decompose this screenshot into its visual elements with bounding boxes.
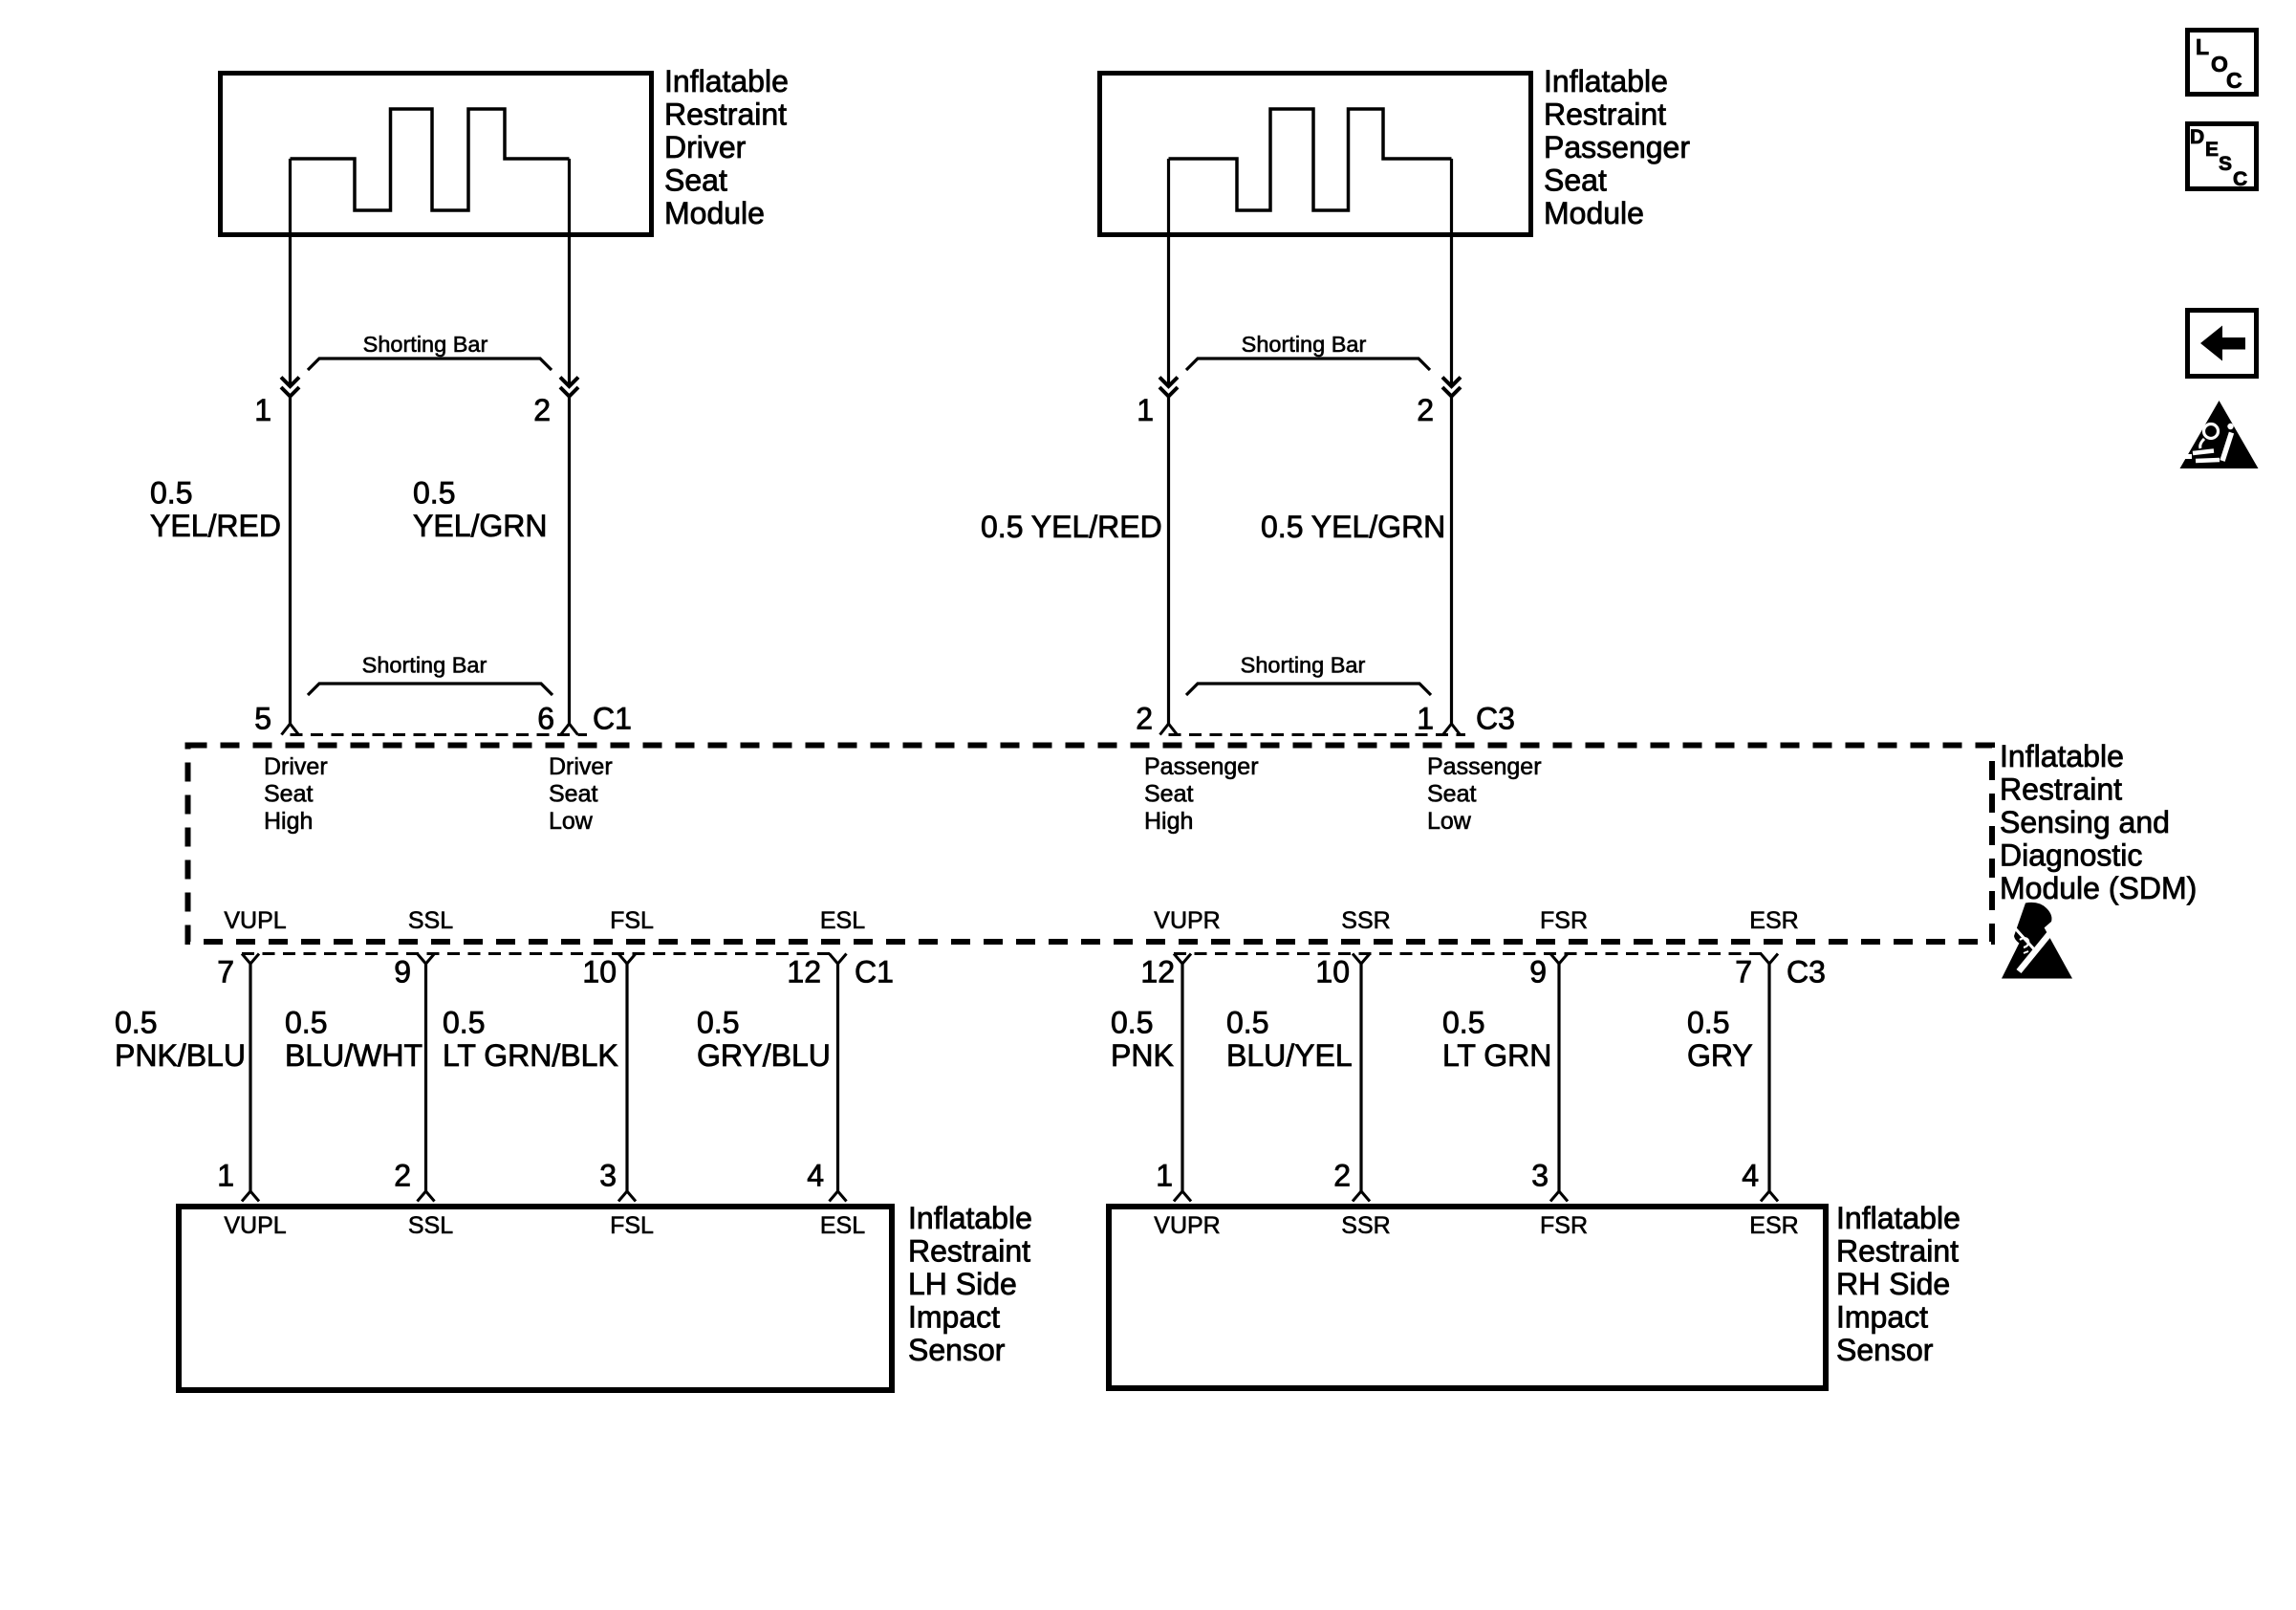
svg-text:Sensor: Sensor xyxy=(1836,1333,1934,1367)
svg-text:Impact: Impact xyxy=(908,1300,1000,1335)
svg-text:SSL: SSL xyxy=(408,907,453,934)
svg-text:Inflatable: Inflatable xyxy=(1836,1201,1960,1235)
svg-text:Passenger: Passenger xyxy=(1544,130,1690,164)
svg-text:0.5: 0.5 xyxy=(1111,1006,1153,1040)
inline connector chevrons at driver pin 1 xyxy=(281,378,299,397)
pin 2 terminal fork at LH sensor (SSL) xyxy=(418,1191,435,1202)
svg-text:FSL: FSL xyxy=(610,1212,654,1239)
connector C3 face line (bottom, dashed) xyxy=(1174,952,1769,955)
svg-text:Seat: Seat xyxy=(1544,163,1607,198)
wire: passenger squib pin 2 lead down to inline connector xyxy=(1450,159,1453,386)
svg-text:0.5: 0.5 xyxy=(1226,1006,1268,1040)
svg-text:YEL/GRN: YEL/GRN xyxy=(413,509,547,543)
svg-text:Diagnostic: Diagnostic xyxy=(2000,838,2142,873)
svg-text:1: 1 xyxy=(217,1159,234,1193)
svg-text:9: 9 xyxy=(394,955,411,990)
icon: LOC legend box xyxy=(2188,31,2257,95)
svg-text:E: E xyxy=(2205,139,2219,161)
svg-text:0.5: 0.5 xyxy=(150,476,192,511)
wire: passenger circuit from connector to SDM pin 1 xyxy=(1450,397,1453,726)
svg-text:ESL: ESL xyxy=(820,1212,865,1239)
pin 10 terminal fork at SDM C3 (SSR) xyxy=(1353,954,1370,965)
pin 1 terminal fork at LH sensor (VUPL) xyxy=(242,1191,259,1202)
svg-text:3: 3 xyxy=(599,1159,617,1193)
svg-text:0.5: 0.5 xyxy=(115,1006,157,1040)
svg-text:GRY/BLU: GRY/BLU xyxy=(697,1038,831,1073)
svg-text:LT GRN/BLK: LT GRN/BLK xyxy=(443,1038,618,1073)
svg-text:LH Side: LH Side xyxy=(908,1267,1017,1301)
svg-text:Restraint: Restraint xyxy=(908,1234,1030,1269)
svg-text:Seat: Seat xyxy=(1427,781,1476,808)
svg-text:High: High xyxy=(1144,808,1193,835)
svg-text:2: 2 xyxy=(1333,1159,1351,1193)
svg-text:Passenger: Passenger xyxy=(1144,753,1259,780)
svg-text:Driver: Driver xyxy=(549,753,613,780)
svg-text:Module (SDM): Module (SDM) xyxy=(2000,871,2197,905)
squib element inside passenger seat module xyxy=(1169,109,1452,210)
svg-text:C3: C3 xyxy=(1787,955,1826,990)
svg-text:10: 10 xyxy=(1315,955,1350,990)
svg-text:FSR: FSR xyxy=(1540,1212,1588,1239)
svg-text:GRY: GRY xyxy=(1687,1038,1753,1073)
svg-text:Shorting Bar: Shorting Bar xyxy=(1241,653,1366,678)
wire: SSL circuit 0.5 BLU/WHT xyxy=(424,963,427,1191)
svg-text:5: 5 xyxy=(254,702,271,736)
svg-text:10: 10 xyxy=(582,955,617,990)
icon: ESD sensitive triangle (at SDM) xyxy=(2002,903,2072,979)
inline connector chevrons at passenger pin 1 xyxy=(1159,378,1178,397)
pin 2 terminal fork at SDM C3 xyxy=(1160,724,1178,735)
svg-text:Driver: Driver xyxy=(264,753,328,780)
wire: driver squib pin 2 lead down to inline connector xyxy=(568,159,571,386)
svg-text:ESL: ESL xyxy=(820,907,865,934)
svg-text:0.5 YEL/GRN: 0.5 YEL/GRN xyxy=(1261,510,1445,544)
icon: DESC legend box xyxy=(2188,124,2257,189)
squib element inside driver seat module xyxy=(291,109,570,210)
pin 6 terminal fork at SDM C1 xyxy=(561,724,578,735)
svg-text:0.5: 0.5 xyxy=(1687,1006,1729,1040)
svg-text:12: 12 xyxy=(787,955,821,990)
svg-text:2: 2 xyxy=(1417,393,1434,427)
pin 12 terminal fork at SDM C1 (ESL) xyxy=(830,954,847,965)
svg-text:1: 1 xyxy=(1156,1159,1173,1193)
svg-text:BLU/WHT: BLU/WHT xyxy=(285,1038,422,1073)
svg-text:Shorting Bar: Shorting Bar xyxy=(1242,332,1367,357)
wire: FSR circuit 0.5 LT GRN xyxy=(1557,963,1560,1191)
wire: SSR circuit 0.5 BLU/YEL xyxy=(1359,963,1362,1191)
svg-text:Sensor: Sensor xyxy=(908,1333,1006,1367)
pin 4 terminal fork at LH sensor (ESL) xyxy=(830,1191,847,1202)
svg-text:VUPR: VUPR xyxy=(1154,907,1220,934)
svg-text:C: C xyxy=(2226,68,2242,93)
wire: passenger circuit from connector to SDM pin 2 xyxy=(1167,397,1170,726)
wire: driver circuit 1 from connector to SDM pin 5 xyxy=(289,397,292,726)
connector C3 face line (top, dashed) xyxy=(1169,733,1466,736)
pin 1 terminal fork at SDM C3 xyxy=(1443,724,1461,735)
svg-text:6: 6 xyxy=(537,702,554,736)
svg-text:Low: Low xyxy=(1427,808,1472,835)
wire: driver squib pin 1 lead down to inline connector xyxy=(289,159,292,386)
svg-text:Restraint: Restraint xyxy=(664,98,787,132)
svg-text:ESR: ESR xyxy=(1749,907,1798,934)
pin 5 terminal fork at SDM C1 xyxy=(282,724,299,735)
svg-text:PNK: PNK xyxy=(1111,1038,1174,1073)
svg-text:ESR: ESR xyxy=(1749,1212,1798,1239)
pin 10 terminal fork at SDM C1 (FSL) xyxy=(618,954,636,965)
icon: left arrow glyph xyxy=(2200,326,2245,361)
svg-text:Inflatable: Inflatable xyxy=(908,1201,1032,1235)
svg-text:4: 4 xyxy=(1742,1159,1759,1193)
svg-text:1: 1 xyxy=(1417,702,1434,736)
pin 9 terminal fork at SDM C1 (SSL) xyxy=(418,954,435,965)
svg-text:0.5: 0.5 xyxy=(1442,1006,1484,1040)
svg-text:S: S xyxy=(2219,153,2232,175)
wire: ESR circuit 0.5 GRY xyxy=(1767,963,1770,1191)
svg-text:Low: Low xyxy=(549,808,594,835)
pin 1 terminal fork at RH sensor (VUPR) xyxy=(1174,1191,1191,1202)
wire: ESL circuit 0.5 GRY/BLU xyxy=(836,963,839,1191)
svg-text:Seat: Seat xyxy=(264,781,313,808)
svg-text:PNK/BLU: PNK/BLU xyxy=(115,1038,246,1073)
svg-text:High: High xyxy=(264,808,313,835)
svg-text:Inflatable: Inflatable xyxy=(664,64,789,98)
svg-text:7: 7 xyxy=(1735,955,1752,990)
svg-text:Inflatable: Inflatable xyxy=(2000,739,2124,773)
pin 7 terminal fork at SDM C1 (VUPL) xyxy=(242,954,259,965)
svg-text:L: L xyxy=(2196,34,2209,59)
svg-text:C: C xyxy=(2233,168,2247,190)
svg-text:0.5 YEL/RED: 0.5 YEL/RED xyxy=(981,510,1162,544)
svg-text:Impact: Impact xyxy=(1836,1300,1928,1335)
svg-text:Restraint: Restraint xyxy=(1544,98,1666,132)
svg-text:1: 1 xyxy=(1137,393,1154,427)
wire: passenger squib pin 1 lead down to inline connector xyxy=(1167,159,1170,386)
module box: Inflatable Restraint Driver Seat Module xyxy=(221,74,652,235)
sensor box: Inflatable Restraint LH Side Impact Sensor xyxy=(179,1207,892,1390)
icon: airbag warning triangle xyxy=(2180,401,2259,468)
connector C1 face line (top, dashed) xyxy=(291,733,588,736)
svg-text:Seat: Seat xyxy=(1144,781,1193,808)
svg-text:0.5: 0.5 xyxy=(285,1006,327,1040)
wire: FSL circuit 0.5 LT GRN/BLK xyxy=(625,963,628,1191)
svg-text:LT GRN: LT GRN xyxy=(1442,1038,1551,1073)
connector C1 face line (bottom, dashed) xyxy=(242,952,837,955)
pin 7 terminal fork at SDM C3 (ESR) xyxy=(1761,954,1778,965)
svg-text:VUPL: VUPL xyxy=(224,907,286,934)
svg-text:Shorting Bar: Shorting Bar xyxy=(362,653,487,678)
module box: Inflatable Restraint Passenger Seat Module xyxy=(1100,74,1531,235)
svg-text:FSL: FSL xyxy=(610,907,654,934)
svg-text:Inflatable: Inflatable xyxy=(1544,64,1668,98)
svg-text:Seat: Seat xyxy=(664,163,727,198)
shorting bar (upper, passenger) xyxy=(1186,359,1430,370)
svg-text:Module: Module xyxy=(664,196,765,230)
shorting bar (lower, driver, at SDM connector C1) xyxy=(308,684,552,695)
svg-text:Restraint: Restraint xyxy=(1836,1234,1959,1269)
pin 3 terminal fork at LH sensor (FSL) xyxy=(618,1191,636,1202)
shorting bar (upper, driver) xyxy=(308,359,552,370)
svg-text:2: 2 xyxy=(533,393,551,427)
svg-text:C1: C1 xyxy=(855,955,894,990)
svg-text:12: 12 xyxy=(1140,955,1175,990)
inline connector chevrons at driver pin 2 xyxy=(560,378,578,397)
wire: VUPL circuit 0.5 PNK/BLU xyxy=(249,963,251,1191)
svg-text:7: 7 xyxy=(217,955,234,990)
svg-text:Passenger: Passenger xyxy=(1427,753,1542,780)
inline connector chevrons at passenger pin 2 xyxy=(1442,378,1461,397)
wire: driver circuit 2 from connector to SDM pin 6 xyxy=(568,397,571,726)
svg-text:C3: C3 xyxy=(1476,702,1515,736)
svg-text:1: 1 xyxy=(254,393,271,427)
pin 3 terminal fork at RH sensor (FSR) xyxy=(1550,1191,1568,1202)
pin 12 terminal fork at SDM C3 (VUPR) xyxy=(1174,954,1191,965)
svg-text:4: 4 xyxy=(807,1159,824,1193)
pin 4 terminal fork at RH sensor (ESR) xyxy=(1761,1191,1778,1202)
svg-text:0.5: 0.5 xyxy=(443,1006,485,1040)
svg-text:Driver: Driver xyxy=(664,130,747,164)
svg-text:RH Side: RH Side xyxy=(1836,1267,1950,1301)
icon: back-arrow legend box xyxy=(2188,311,2257,377)
svg-text:SSR: SSR xyxy=(1341,1212,1390,1239)
pin 2 terminal fork at RH sensor (SSR) xyxy=(1353,1191,1370,1202)
svg-text:Shorting Bar: Shorting Bar xyxy=(363,332,488,357)
svg-text:Restraint: Restraint xyxy=(2000,772,2122,807)
SDM dashed module box: Inflatable Restraint Sensing and Diagnostic Module xyxy=(188,746,1993,943)
svg-text:Module: Module xyxy=(1544,196,1644,230)
svg-text:2: 2 xyxy=(394,1159,411,1193)
shorting bar (lower, passenger, at SDM connector C3) xyxy=(1186,684,1431,695)
svg-text:Seat: Seat xyxy=(549,781,597,808)
svg-text:0.5: 0.5 xyxy=(697,1006,739,1040)
pin 9 terminal fork at SDM C3 (FSR) xyxy=(1550,954,1568,965)
svg-text:YEL/RED: YEL/RED xyxy=(150,509,281,543)
svg-text:VUPL: VUPL xyxy=(224,1212,286,1239)
svg-text:Sensing and: Sensing and xyxy=(2000,805,2170,839)
svg-text:FSR: FSR xyxy=(1540,907,1588,934)
svg-text:C1: C1 xyxy=(593,702,632,736)
svg-text:9: 9 xyxy=(1529,955,1547,990)
svg-text:0.5: 0.5 xyxy=(413,476,455,511)
svg-text:3: 3 xyxy=(1531,1159,1549,1193)
svg-text:SSR: SSR xyxy=(1341,907,1390,934)
wire: VUPR circuit 0.5 PNK xyxy=(1180,963,1183,1191)
svg-text:SSL: SSL xyxy=(408,1212,453,1239)
svg-text:BLU/YEL: BLU/YEL xyxy=(1226,1038,1353,1073)
svg-text:D: D xyxy=(2190,126,2204,148)
sensor box: Inflatable Restraint RH Side Impact Sensor xyxy=(1109,1207,1826,1388)
svg-text:2: 2 xyxy=(1136,702,1153,736)
svg-text:VUPR: VUPR xyxy=(1154,1212,1220,1239)
